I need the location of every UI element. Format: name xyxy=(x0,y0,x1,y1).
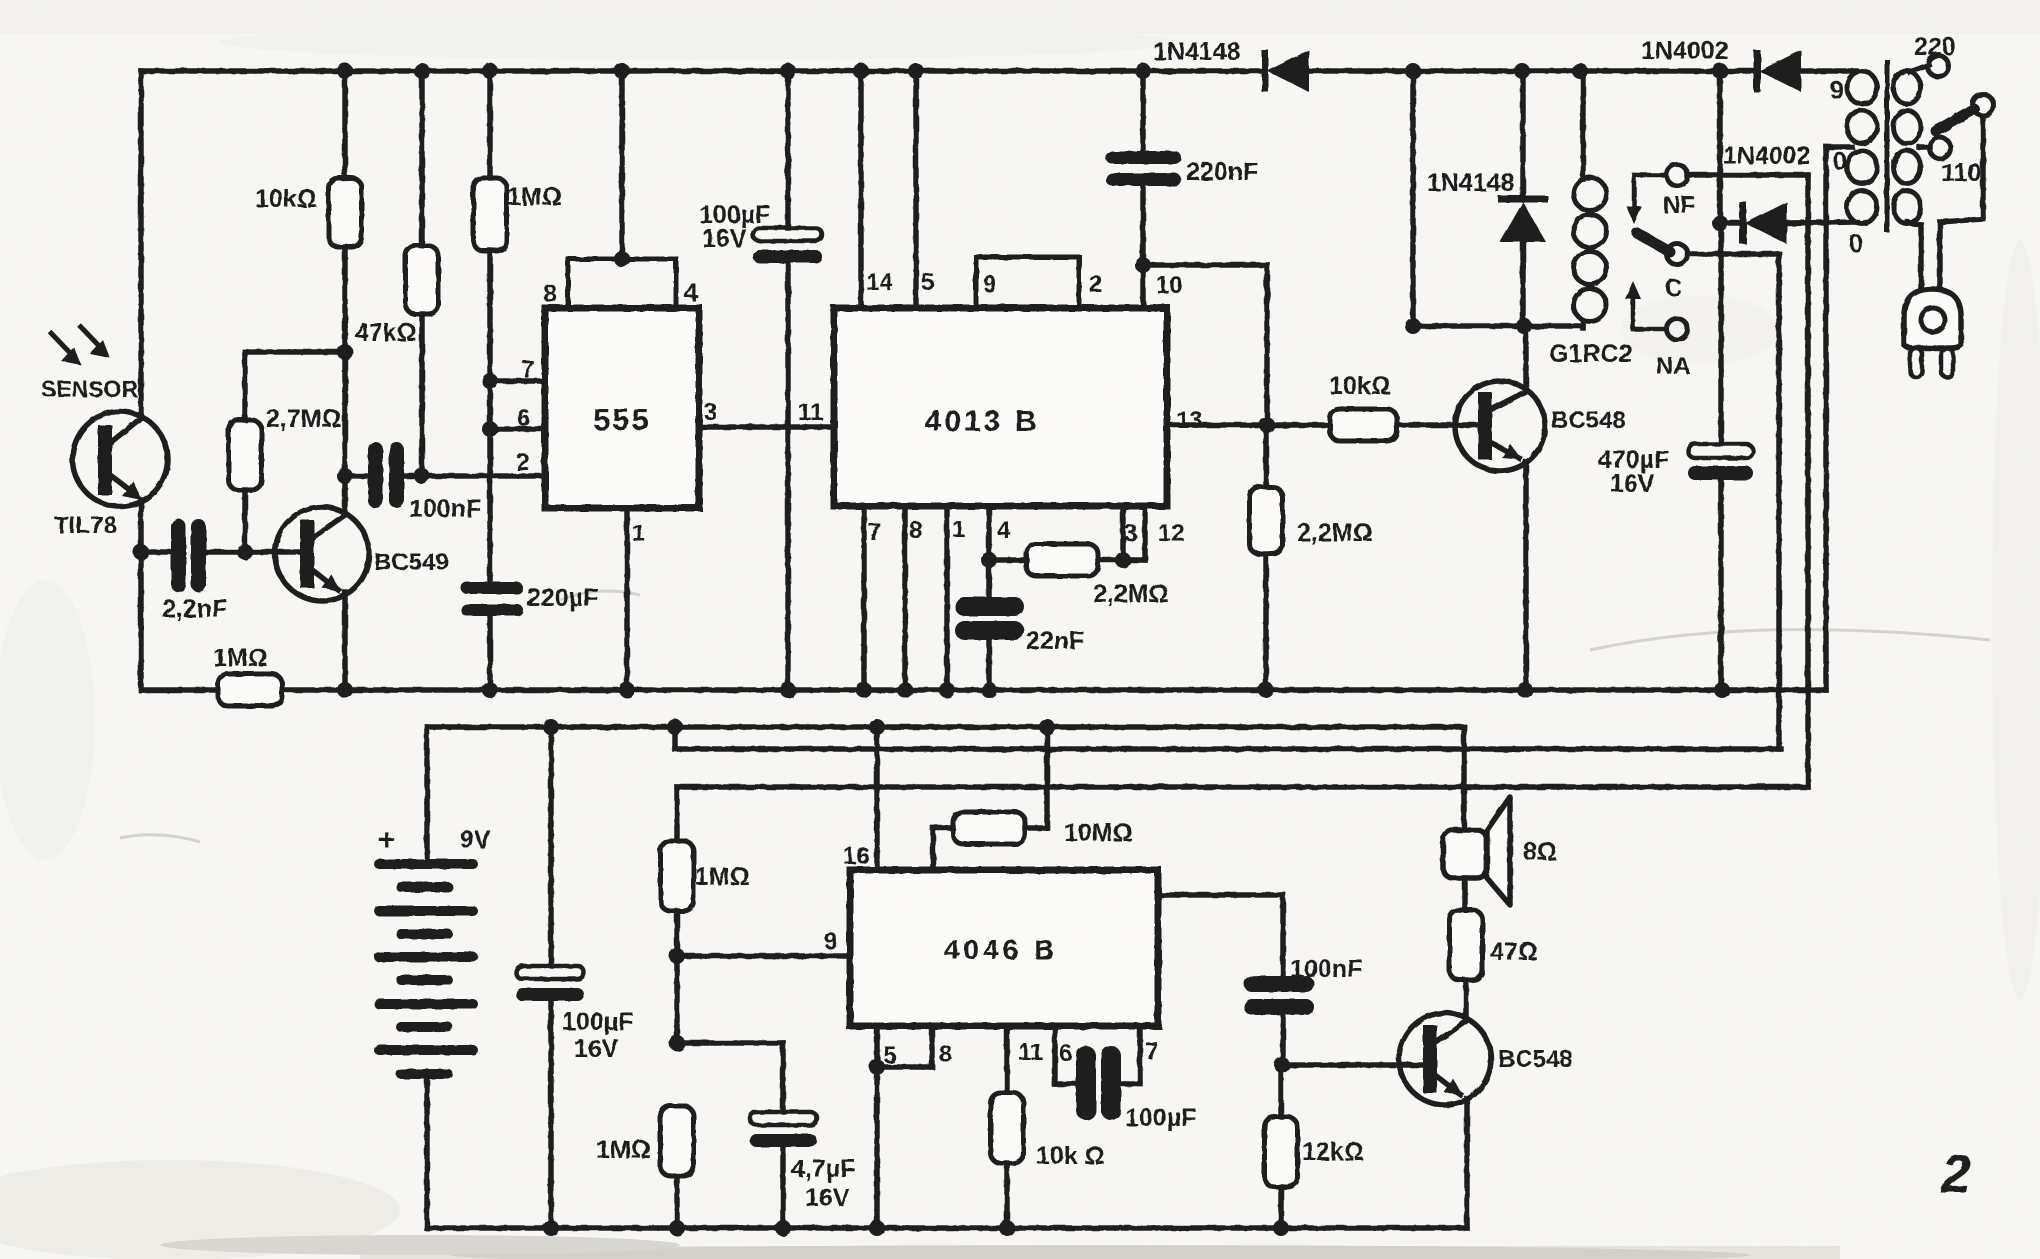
label 100uF top xyxy=(699,201,770,229)
wire +9V rail corner to battery xyxy=(424,727,430,862)
node dot 10k-4046 ground xyxy=(999,1220,1015,1236)
555 pins 8-4 bracket xyxy=(568,259,676,308)
node dot 4,7uF ground xyxy=(775,1220,791,1236)
label pin 8 (4046) xyxy=(939,1041,952,1068)
capacitor 100uF (pins 6-7) plates xyxy=(1076,1046,1121,1120)
light arrow 2 into sensor xyxy=(79,325,110,358)
relay NF contact circle xyxy=(1667,165,1688,186)
capacitor 220nF plates xyxy=(1106,151,1181,186)
wire 4046 output xyxy=(1158,895,1283,977)
label 4,7uF xyxy=(791,1155,855,1183)
node dot TIL78 emitter / 2,2nF xyxy=(133,544,149,560)
node dot pin9 node xyxy=(669,948,685,964)
wire top +V rail (left segment) xyxy=(141,68,1262,74)
node dot 220uF ground xyxy=(482,682,498,698)
label + battery xyxy=(378,824,396,857)
label 10kOhm base xyxy=(1329,372,1391,400)
capacitor 2,2nF plates xyxy=(171,519,206,592)
label pin 12 (4013 bottom) xyxy=(1158,520,1185,547)
label pin 2 (4013) xyxy=(1089,271,1102,298)
label NA xyxy=(1656,353,1691,380)
wire pins 5-8 bracket xyxy=(877,1064,932,1070)
node dot pin7 ground xyxy=(856,682,872,698)
mains plug xyxy=(1904,289,1961,377)
label pin 8 (4013 bottom) xyxy=(909,517,922,544)
node dot 2,2M ground xyxy=(1258,682,1274,698)
diode 1N4148 (relay clamp) xyxy=(1498,71,1548,326)
capacitor 100nF plates (555 trigger) xyxy=(368,442,404,508)
node dot 555 pin1 ground xyxy=(619,682,635,698)
label 2,2MOhm horizontal xyxy=(1093,580,1169,608)
wire 22nF bottom xyxy=(986,640,992,690)
label 2,2nF xyxy=(162,595,227,623)
label pin 16 (4046) xyxy=(843,843,870,870)
wire feedback down to pin13 line xyxy=(1264,265,1270,425)
label pin 11 (4046) xyxy=(1018,1039,1043,1066)
capacitor 100nF (output) plates xyxy=(1244,976,1314,1015)
wire 100uF top lead xyxy=(785,71,791,228)
label 1MOhm top xyxy=(507,183,562,211)
node dot pin14 rail xyxy=(853,63,869,79)
node dot rail 1522 xyxy=(1514,63,1530,79)
loudspeaker 8 Ohm xyxy=(1443,797,1510,905)
node dot 100uF-b rail xyxy=(543,719,559,735)
capacitor 4,7uF plates xyxy=(750,1112,817,1147)
label pin 7 (4013 bottom) xyxy=(868,519,881,546)
wire 4013 pin1 ground xyxy=(944,506,950,690)
node dot pin13 feedback xyxy=(1259,417,1275,433)
relay NA contact circle xyxy=(1667,319,1688,340)
wire primary mid to 110 terminal xyxy=(1919,144,1930,150)
wire C line to +9V rail xyxy=(672,727,678,749)
wire 1M to pin9 node xyxy=(674,911,680,956)
wire 2,2M vert bottom xyxy=(1263,554,1269,690)
wire 47k bottom xyxy=(419,314,425,476)
transformer secondary winding (9-0-0) xyxy=(1847,71,1877,224)
label G1RC2 xyxy=(1549,340,1632,368)
node dot 2.7M junction xyxy=(337,344,353,360)
node dot pin5 bracket xyxy=(869,1059,885,1075)
node dot BC549 base junction xyxy=(237,544,253,560)
resistor 10M body xyxy=(953,812,1025,844)
wire 555 pin6 stub xyxy=(490,426,545,432)
label 100nF top xyxy=(409,495,481,523)
wire 4013 pin12 stub xyxy=(1142,506,1148,560)
label pin 9 (4013) xyxy=(983,271,996,298)
label 555 xyxy=(593,402,651,437)
wire relay block bottom xyxy=(1413,323,1583,329)
node dot 10M rail xyxy=(1039,719,1055,735)
wire primary bottom to plug xyxy=(1907,222,1921,289)
label TIL78 xyxy=(54,512,117,539)
wire 4013 pin13 output xyxy=(1167,422,1330,428)
transistor BC548 (relay driver) xyxy=(1455,381,1545,471)
wire relay block left side xyxy=(1410,71,1416,326)
wire 4013 pin3 stub xyxy=(1120,506,1126,560)
phototransistor TIL78 xyxy=(73,412,168,507)
wire rectifier join vertical xyxy=(1717,71,1723,223)
wire 10M right lead xyxy=(1025,727,1047,828)
label 8 Ohm xyxy=(1523,838,1557,866)
light arrow 1 into sensor xyxy=(50,332,81,365)
label 16V top xyxy=(702,225,747,253)
wire 1M top xyxy=(487,71,493,178)
resistor 10k (base) body xyxy=(1330,409,1397,441)
resistor 2,2M vertical body xyxy=(1250,487,1283,554)
diode 1N4148 (series, top rail) xyxy=(1262,50,1310,92)
node dot 47k bottom xyxy=(414,468,430,484)
wire 100uF-b top xyxy=(548,727,554,966)
label 1MOhm rail xyxy=(213,644,268,672)
wire BC548-b emitter down xyxy=(1464,1099,1470,1228)
label pin 3 (555) xyxy=(704,399,717,426)
label 110 xyxy=(1941,159,1981,187)
resistor 47R body xyxy=(1450,910,1483,980)
resistor 47k body xyxy=(406,246,439,314)
capacitor 470uF plates xyxy=(1688,444,1753,480)
4013 pins 9-2 bracket xyxy=(976,257,1079,308)
node dot 47k top rail xyxy=(414,63,430,79)
wire 100nF to base node xyxy=(1280,1015,1286,1065)
label 16V 4,7uF xyxy=(805,1184,850,1212)
wire TIL78 collector to +V rail xyxy=(138,71,144,417)
wire 2,2nF left xyxy=(141,549,171,555)
label 9 tap xyxy=(1830,77,1844,105)
capacitor 220uF plates xyxy=(461,582,523,616)
node dot rail 1720 xyxy=(1712,63,1728,79)
wire 100uF-b bottom xyxy=(548,1001,554,1228)
label 12kOhm xyxy=(1302,1138,1364,1166)
label C xyxy=(1665,275,1682,302)
label 100uF 4046 xyxy=(1125,1104,1196,1132)
wire 470uF top xyxy=(1718,223,1724,444)
battery 9V plates xyxy=(374,859,478,1079)
label pin 5 (4013) xyxy=(921,269,934,296)
wire speaker feed down xyxy=(1461,727,1467,830)
wire 4013 pin8 ground xyxy=(902,506,908,690)
node dot pin5 ground xyxy=(869,1220,885,1236)
IC 555 box xyxy=(545,308,699,508)
node dot BC549 emitter ground xyxy=(337,682,353,698)
label 220 xyxy=(1914,33,1956,61)
transformer core xyxy=(1885,62,1890,230)
wire 2,2nF right to BC549 base xyxy=(206,549,300,555)
wire C vertical xyxy=(1776,254,1782,749)
IC 4046B box xyxy=(850,870,1158,1026)
label 100nF bottom xyxy=(1290,955,1362,983)
wire lever down to plug xyxy=(1940,116,1983,289)
wire 4013 pin5 xyxy=(913,71,919,308)
label NF xyxy=(1663,192,1695,219)
wire 12k bottom xyxy=(1278,1187,1284,1228)
node dot pin4 / 2,2M xyxy=(981,552,997,568)
node dot pin10 bracket xyxy=(1135,257,1151,273)
label pin 3 (4013 bottom) xyxy=(1124,520,1137,547)
diode 1N4002 (top) xyxy=(1754,50,1802,92)
label 16V bottom xyxy=(574,1035,619,1063)
label 0 mid tap xyxy=(1833,148,1847,176)
node dot pin8 ground xyxy=(897,682,913,698)
wire BC548 collector xyxy=(1523,326,1529,390)
label figure number 2 xyxy=(1940,1144,1971,1204)
node dot 100nF junction xyxy=(337,468,353,484)
wire pin9 node down xyxy=(674,956,680,1043)
transistor BC549 xyxy=(275,507,369,601)
wire 555 pin7 stub xyxy=(490,378,545,384)
wire 10k to BC548 base xyxy=(1397,422,1479,428)
resistor 1M (ground rail) body xyxy=(218,674,282,706)
wire 555 pin3 output xyxy=(699,424,834,430)
node dot relay bottom / collector xyxy=(1516,318,1532,334)
wire 1M bottom to 220uF xyxy=(487,251,493,583)
wire 4013 pin7 ground xyxy=(861,506,867,690)
node dot 100uF ground xyxy=(780,682,796,698)
wire 1M lower bottom xyxy=(674,1176,680,1228)
node dot pin16 rail xyxy=(869,719,885,735)
relay NA contact arrow xyxy=(1625,281,1666,329)
wire 4046 pin7 xyxy=(1121,1026,1140,1084)
wire 100nF right to 555 pin2 xyxy=(404,473,545,479)
wire battery minus down xyxy=(424,1074,430,1228)
wire primary top to 220 terminal xyxy=(1910,65,1929,72)
node dot 555 supply rail xyxy=(614,63,630,79)
node dot pin6 junction xyxy=(482,421,498,437)
wire 220uF bottom xyxy=(487,616,493,690)
terminal 110 circle xyxy=(1930,138,1951,159)
voltage selector lever xyxy=(1936,95,1994,132)
node dot BC548 emitter ground xyxy=(1517,682,1533,698)
resistor 1M (lower bottom-section) body xyxy=(661,1106,694,1176)
label SENSOR xyxy=(41,376,139,402)
node dot 22nF ground xyxy=(981,682,997,698)
label 47kOhm xyxy=(355,319,417,347)
wire top +V rail (middle segment) xyxy=(1310,68,1754,74)
node dot second diode junction xyxy=(1712,215,1728,231)
label 1N4148 rail xyxy=(1153,38,1241,66)
label pin 2 (555) xyxy=(516,449,529,476)
resistor 12k body xyxy=(1265,1117,1298,1187)
node dot 1M-lower ground xyxy=(669,1220,685,1236)
label 1N4002 top xyxy=(1641,37,1729,65)
label 1MOhm upper-bottom xyxy=(695,863,750,891)
label pin 6 (4046) xyxy=(1059,1040,1072,1067)
label 4046 B xyxy=(944,934,1058,965)
label pin 4 (555) xyxy=(684,279,698,307)
wire NF vertical xyxy=(1805,175,1811,787)
relay C contact circle xyxy=(1667,244,1688,265)
resistor 1M (555 timing) body xyxy=(474,178,507,251)
resistor 1M (upper bottom-section) body xyxy=(661,841,694,911)
label 9V xyxy=(460,826,491,854)
relay coil G1RC2 xyxy=(1574,71,1607,328)
wire 4046 pin8 xyxy=(929,1026,935,1067)
node dot pin7 junction xyxy=(482,373,498,389)
label pin 9 (4046) xyxy=(824,928,837,955)
transistor BC548 (output) xyxy=(1399,1013,1491,1105)
wire 12k top xyxy=(1278,1065,1284,1117)
label 2,7MOhm xyxy=(266,405,342,433)
wire NF line xyxy=(677,784,1808,790)
wire +9V rail xyxy=(427,724,1464,730)
wire 100uF bottom lead xyxy=(785,263,791,690)
wire 4046 pin11 xyxy=(1004,1026,1010,1093)
wire 4046 pin5 xyxy=(874,1026,880,1067)
label BC548 top xyxy=(1551,407,1626,434)
node dot C line rail xyxy=(667,719,683,735)
label pin 7 (555) xyxy=(521,356,534,383)
label 10MOhm xyxy=(1064,819,1133,847)
node dot 100uF-b ground xyxy=(543,1220,559,1236)
node dot 555 bracket xyxy=(614,251,630,267)
label pin 8 (555) xyxy=(543,280,557,308)
wire NF to standby line xyxy=(1687,172,1808,178)
wire 4013 pin14 xyxy=(858,71,864,308)
wire top ground rail xyxy=(282,687,1826,693)
IC 4013B box xyxy=(834,308,1167,506)
resistor 2.7M body xyxy=(229,420,262,490)
terminal 220 circle xyxy=(1928,56,1949,77)
label pin 13 (4013) xyxy=(1176,407,1203,434)
capacitor 100uF 16V (top) plates xyxy=(753,228,822,263)
label pin 11 (4013) xyxy=(798,399,823,426)
wire 10M left lead xyxy=(933,828,953,870)
wire 10k-4046 bottom xyxy=(1004,1163,1010,1228)
wire 100nF left xyxy=(345,473,368,479)
wire 4,7uF bottom xyxy=(780,1147,786,1228)
node dot 4,7uF node xyxy=(669,1035,685,1051)
wire 10k top xyxy=(342,71,348,178)
wire TIL78 emitter down xyxy=(138,500,144,690)
wire 555 supply from rail xyxy=(619,71,625,259)
node dot rail 1580 xyxy=(1572,63,1588,79)
wire 47R to collector xyxy=(1463,980,1469,1019)
label 10kOhm 4046 xyxy=(1036,1142,1105,1170)
node dot pin5 rail xyxy=(908,63,924,79)
relay NF contact arrow xyxy=(1626,175,1666,224)
wire 2,2M vert top xyxy=(1263,425,1269,487)
label 220nF xyxy=(1186,158,1258,186)
node dot 2,2M right xyxy=(1115,552,1131,568)
resistor 10k (left) body xyxy=(329,178,362,247)
capacitor 100uF 16V (bottom) plates xyxy=(516,966,584,1001)
wire 47k top xyxy=(419,71,425,246)
label 47 Ohm xyxy=(1490,938,1538,966)
node dot 12k ground xyxy=(1273,1220,1289,1236)
wire 4046 pin16 xyxy=(874,727,880,870)
label pin 5 (4046) xyxy=(883,1042,896,1069)
wire 2.7M top link xyxy=(245,352,345,420)
label 0 bottom tap xyxy=(1849,230,1863,258)
wire 4013 pin10 / 220nF xyxy=(1140,186,1146,308)
label pin 14 (4013) xyxy=(866,269,893,296)
label 1N4148 clamp xyxy=(1427,169,1515,197)
relay armature xyxy=(1637,233,1670,252)
capacitor 22nF plates xyxy=(955,597,1024,640)
transformer primary winding (220-110) xyxy=(1894,71,1921,224)
label 2,2MOhm vertical xyxy=(1297,519,1373,547)
diode 1N4002 (lower) xyxy=(1720,202,1857,244)
label 1N4002 lower xyxy=(1723,142,1811,170)
wire top ground rail (left of 1M) xyxy=(141,687,218,693)
wire 4046 pin6 xyxy=(1055,1026,1076,1084)
wire C to speaker feed line xyxy=(1687,251,1779,257)
resistor 2,2M horizontal body xyxy=(1026,544,1098,576)
resistor 10k (4046) body xyxy=(991,1093,1024,1163)
label 22nF xyxy=(1026,627,1084,655)
label 100uF bottom xyxy=(562,1008,633,1036)
wire pin5 to ground xyxy=(874,1067,880,1228)
label 4013 B xyxy=(925,405,1040,438)
label BC548 bottom xyxy=(1498,1046,1573,1073)
wire 555 pin1 ground xyxy=(624,508,630,690)
node dot relay bottom left xyxy=(1405,318,1421,334)
node dot pin1 ground xyxy=(939,682,955,698)
wire 2.7M bottom xyxy=(242,490,248,552)
wire NF line down to 1M xyxy=(674,787,680,841)
wire 0V center tap xyxy=(1826,147,1852,690)
label 470uF xyxy=(1598,446,1669,474)
wire pin9 of 4046 xyxy=(677,953,850,959)
label pin 4 (4013 bottom) xyxy=(997,517,1011,544)
label BC549 xyxy=(374,549,449,576)
label pin 10 (4013) xyxy=(1156,272,1183,299)
node dot 1M top rail xyxy=(482,63,498,79)
wire to 4,7uF xyxy=(677,1043,783,1112)
wire bottom ground rail xyxy=(427,1225,1467,1231)
wire BC549 emitter down xyxy=(342,592,348,690)
node dot 470uF ground xyxy=(1714,682,1730,698)
wire 470uF bottom xyxy=(1718,480,1724,690)
label 10kOhm left xyxy=(255,185,317,213)
label pin 6 (555) xyxy=(517,405,530,432)
node dot 220nF rail xyxy=(1135,63,1151,79)
wire 4013 pin4 down xyxy=(986,506,992,598)
label 220uF xyxy=(527,584,598,612)
node dot base node xyxy=(1274,1057,1290,1073)
wire 2,2M right lead xyxy=(1098,557,1145,563)
wire base node to BC548 xyxy=(1282,1062,1426,1068)
node dot 10k top rail xyxy=(337,63,353,79)
node dot rail 1413 xyxy=(1405,63,1421,79)
wire speaker to 47R xyxy=(1462,878,1468,910)
label 16V 470uF xyxy=(1610,470,1655,498)
label pin 7 (4046) xyxy=(1145,1038,1158,1065)
label pin 1 (4013 bottom) xyxy=(952,516,965,543)
label pin 1 (555) xyxy=(632,520,645,547)
node dot 100uF rail xyxy=(780,63,796,79)
wire 220nF top xyxy=(1140,71,1146,151)
wire 10k bottom / BC549 collector line xyxy=(342,247,348,512)
label 1MOhm lower-bottom xyxy=(596,1136,651,1164)
wire top +V rail to transformer 9V tap xyxy=(1795,68,1856,74)
wire BC548 emitter xyxy=(1523,462,1529,690)
wire 2,2M left lead xyxy=(989,557,1026,563)
wire standby C line xyxy=(675,746,1781,752)
wire pin10 to flipflop feedback xyxy=(1143,262,1267,268)
